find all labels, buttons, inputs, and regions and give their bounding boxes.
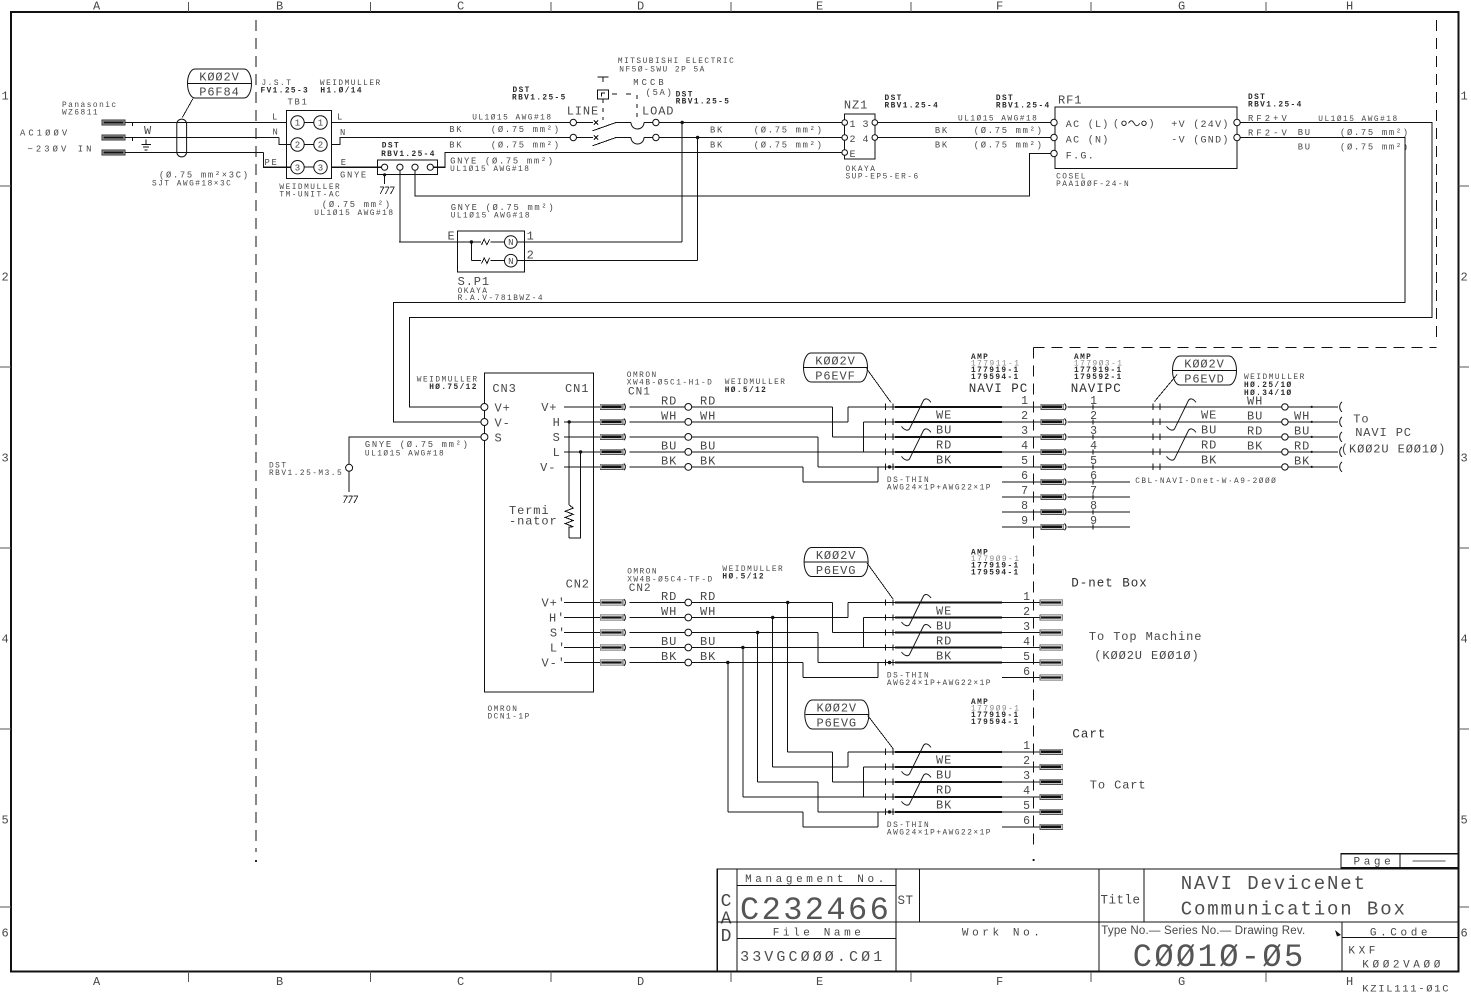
svg-text:KØØ2VAØØ: KØØ2VAØØ (1362, 960, 1444, 972)
svg-text:RD: RD (1294, 440, 1310, 454)
svg-text:6: 6 (1023, 666, 1030, 679)
svg-text:WE: WE (936, 409, 952, 423)
svg-text:+V (24V): +V (24V) (1171, 119, 1229, 131)
svg-text:8: 8 (1090, 500, 1097, 513)
svg-text:F: F (996, 0, 1004, 14)
svg-text:BK: BK (1294, 455, 1310, 469)
svg-text:N: N (340, 128, 347, 138)
svg-text:G: G (1178, 975, 1186, 989)
svg-text:MITSUBISHI ELECTRIC: MITSUBISHI ELECTRIC (618, 58, 735, 66)
svg-text:1: 1 (1023, 591, 1030, 604)
svg-text:GNYE (Ø.75 mm²): GNYE (Ø.75 mm²) (450, 157, 555, 167)
svg-text:L: L (337, 113, 344, 123)
svg-text:BK: BK (449, 140, 463, 150)
svg-text:H: H (553, 416, 561, 430)
svg-text:BK: BK (661, 455, 677, 469)
svg-text:UL1Ø15 AWG#18: UL1Ø15 AWG#18 (314, 209, 394, 218)
svg-text:BK: BK (936, 799, 952, 813)
svg-text:(Ø.75 mm²): (Ø.75 mm²) (322, 200, 392, 210)
svg-text:File Name: File Name (773, 928, 865, 940)
svg-text:1: 1 (850, 120, 856, 131)
svg-text:P6EVG: P6EVG (817, 716, 858, 730)
svg-text:2: 2 (850, 135, 856, 146)
svg-text:2: 2 (318, 141, 323, 151)
svg-text:4: 4 (1090, 440, 1097, 453)
svg-text:KØØ2V: KØØ2V (1184, 357, 1225, 371)
svg-text:GNYE (Ø.75 mm²): GNYE (Ø.75 mm²) (451, 203, 556, 213)
svg-text:BU: BU (936, 424, 952, 438)
svg-text:RD: RD (661, 590, 677, 604)
svg-text:Type No.— Series No.— Drawing: Type No.— Series No.— Drawing Rev. (1101, 925, 1305, 937)
svg-text:P6EVF: P6EVF (815, 369, 856, 383)
svg-text:2: 2 (1460, 271, 1468, 285)
svg-text:BU: BU (661, 440, 677, 454)
svg-text:4: 4 (863, 135, 869, 146)
svg-text:KØØ2V: KØØ2V (816, 549, 857, 563)
svg-text:A: A (93, 0, 101, 14)
svg-text:To Cart: To Cart (1090, 779, 1147, 793)
svg-text:RF1: RF1 (1058, 94, 1082, 108)
svg-text:S': S' (550, 627, 566, 641)
svg-text:(KØØ2U EØØ1Ø): (KØØ2U EØØ1Ø) (1341, 442, 1446, 456)
svg-text:): ) (1149, 119, 1156, 131)
svg-text:BK: BK (935, 126, 949, 136)
svg-text:2: 2 (295, 141, 300, 151)
svg-text:AC (L): AC (L) (1066, 119, 1110, 131)
svg-text:NAVI DeviceNet: NAVI DeviceNet (1181, 873, 1367, 895)
svg-text:TM-UNIT-AC: TM-UNIT-AC (279, 192, 341, 200)
svg-text:9: 9 (1090, 515, 1097, 528)
svg-text:W: W (144, 124, 152, 138)
svg-text:-V (GND): -V (GND) (1171, 135, 1229, 147)
svg-text:BK: BK (935, 141, 949, 151)
svg-text:(Ø.75 mm²): (Ø.75 mm²) (491, 140, 561, 150)
svg-text:3: 3 (863, 120, 869, 131)
svg-text:F: F (996, 975, 1004, 989)
svg-text:To: To (1353, 413, 1369, 427)
svg-text:NZ1: NZ1 (844, 99, 868, 113)
svg-text:BU: BU (936, 769, 952, 783)
svg-text:3: 3 (1090, 425, 1097, 438)
svg-text:L': L' (550, 642, 566, 656)
svg-text:D-net Box: D-net Box (1071, 577, 1148, 591)
svg-text:BU: BU (1298, 128, 1312, 138)
svg-text:1: 1 (1021, 395, 1028, 408)
svg-text:179594-1: 179594-1 (971, 374, 1020, 382)
svg-text:HØ.5/12: HØ.5/12 (722, 573, 765, 582)
svg-text:179592-1: 179592-1 (1074, 374, 1123, 382)
svg-text:BU: BU (1294, 425, 1310, 439)
svg-text:5: 5 (1090, 455, 1097, 468)
svg-text:(5A): (5A) (646, 88, 674, 98)
svg-text:UL1Ø15 AWG#18: UL1Ø15 AWG#18 (451, 212, 531, 221)
svg-text:KØØ2V: KØØ2V (817, 701, 858, 715)
svg-text:HØ.75/12: HØ.75/12 (429, 383, 478, 392)
svg-text:HØ.34/1Ø: HØ.34/1Ø (1244, 389, 1293, 398)
svg-text:CN3: CN3 (492, 382, 516, 396)
svg-text:LINE: LINE (567, 105, 599, 119)
svg-text:SUP-EP5-ER-6: SUP-EP5-ER-6 (846, 174, 920, 182)
svg-text:WE: WE (936, 604, 952, 618)
svg-text:CN2: CN2 (629, 583, 652, 595)
svg-text:6: 6 (1090, 470, 1097, 483)
svg-text:WEIDMULLER: WEIDMULLER (725, 379, 787, 387)
svg-text:ST: ST (898, 894, 914, 908)
svg-text:2: 2 (1021, 410, 1028, 423)
svg-text:G: G (1178, 0, 1186, 14)
svg-text:CN1: CN1 (565, 382, 589, 396)
svg-text:D: D (721, 927, 732, 947)
svg-text:(Ø.75 mm²): (Ø.75 mm²) (754, 141, 824, 151)
svg-text:SJT AWG#18×3C: SJT AWG#18×3C (152, 181, 232, 189)
svg-text:3: 3 (1023, 770, 1030, 783)
svg-text:P6EVG: P6EVG (816, 564, 857, 578)
svg-text:MCCB: MCCB (633, 78, 667, 88)
svg-text:1: 1 (527, 230, 535, 244)
svg-text:1: 1 (1460, 90, 1468, 104)
svg-text:1: 1 (1090, 395, 1097, 408)
svg-text:S.P1: S.P1 (458, 275, 490, 289)
svg-text:V-: V- (540, 461, 556, 475)
svg-text:RD: RD (1201, 439, 1217, 453)
svg-text:NAVI PC: NAVI PC (969, 382, 1029, 396)
svg-text:5: 5 (1021, 455, 1028, 468)
svg-text:OMRON: OMRON (627, 569, 658, 577)
svg-text:UL1Ø15 AWG#18: UL1Ø15 AWG#18 (365, 449, 445, 458)
svg-text:1: 1 (318, 119, 323, 129)
svg-text:RBV1.25-4: RBV1.25-4 (381, 151, 436, 159)
svg-text:3: 3 (1, 452, 9, 466)
svg-text:D: D (637, 0, 645, 14)
svg-text:BK: BK (710, 126, 724, 136)
svg-text:4: 4 (1023, 636, 1030, 649)
svg-text:(Ø.75 mm²): (Ø.75 mm²) (974, 141, 1044, 151)
svg-text:BU: BU (661, 635, 677, 649)
svg-text:BK: BK (1247, 440, 1263, 454)
svg-text:WZ6811: WZ6811 (62, 110, 99, 118)
svg-text:B: B (276, 0, 284, 14)
svg-text:P6F84: P6F84 (199, 85, 240, 99)
svg-text:N: N (508, 238, 513, 248)
svg-text:KØØ2V: KØØ2V (815, 354, 856, 368)
svg-text:H1.Ø/14: H1.Ø/14 (320, 87, 363, 96)
svg-text:FV1.25-3: FV1.25-3 (261, 88, 310, 96)
svg-text:(: ( (1113, 119, 1120, 131)
svg-text:LOAD: LOAD (642, 105, 674, 119)
svg-text:CBL-NAVI-Dnet-W·A9-2ØØØ: CBL-NAVI-Dnet-W·A9-2ØØØ (1135, 477, 1277, 486)
svg-text:AWG24×1P+AWG22×1P: AWG24×1P+AWG22×1P (887, 829, 992, 837)
svg-text:9: 9 (1021, 515, 1028, 528)
svg-text:6: 6 (1023, 815, 1030, 828)
svg-text:F.G.: F.G. (1066, 152, 1095, 163)
svg-text:E: E (816, 0, 824, 14)
svg-text:Work No.: Work No. (962, 928, 1044, 940)
svg-text:D: D (637, 975, 645, 989)
svg-text:NAVI PC: NAVI PC (1355, 426, 1412, 440)
svg-text:2: 2 (1090, 410, 1097, 423)
svg-text:UL1Ø15 AWG#18: UL1Ø15 AWG#18 (472, 114, 552, 123)
svg-text:AC (N): AC (N) (1066, 135, 1110, 147)
svg-text:2: 2 (1, 271, 9, 285)
svg-text:6: 6 (1021, 470, 1028, 483)
svg-text:RD: RD (936, 439, 952, 453)
svg-text:WEIDMULLER: WEIDMULLER (1244, 374, 1306, 382)
svg-text:33VGCØØØ.CØ1: 33VGCØØØ.CØ1 (740, 949, 885, 966)
svg-text:Management No.: Management No. (745, 874, 888, 886)
svg-text:RBV1.25-4: RBV1.25-4 (1248, 102, 1303, 110)
svg-text:C: C (457, 975, 465, 989)
svg-text:PAA1ØØF-24-N: PAA1ØØF-24-N (1056, 180, 1130, 189)
svg-text:KXF: KXF (1348, 946, 1379, 958)
svg-text:RBV1.25-4: RBV1.25-4 (996, 103, 1051, 111)
svg-text:2: 2 (1023, 606, 1030, 619)
svg-text:(Ø.75 mm²): (Ø.75 mm²) (491, 125, 561, 135)
svg-text:3: 3 (1460, 452, 1468, 466)
svg-text:V+: V+ (495, 402, 511, 416)
svg-text:4: 4 (1021, 440, 1028, 453)
svg-text:BU: BU (1298, 143, 1312, 153)
svg-text:3: 3 (1021, 425, 1028, 438)
svg-text:N: N (273, 128, 280, 138)
svg-text:C: C (457, 0, 465, 14)
svg-text:BU: BU (1247, 410, 1263, 424)
svg-text:RBV1.25-M3.5: RBV1.25-M3.5 (269, 470, 343, 478)
svg-text:E: E (816, 975, 824, 989)
svg-text:BK: BK (936, 649, 952, 663)
svg-text:RF2+V: RF2+V (1248, 114, 1290, 124)
svg-text:NAVIPC: NAVIPC (1071, 382, 1122, 396)
svg-text:Cart: Cart (1072, 728, 1106, 742)
svg-text:RD: RD (661, 395, 677, 409)
svg-text:RBV1.25-5: RBV1.25-5 (512, 95, 567, 103)
svg-text:(Ø.75 mm²): (Ø.75 mm²) (1340, 143, 1410, 153)
svg-text:BK: BK (661, 650, 677, 664)
svg-text:HØ.25/1Ø: HØ.25/1Ø (1244, 381, 1293, 390)
svg-text:DCN1-1P: DCN1-1P (488, 714, 531, 722)
svg-text:S: S (553, 431, 561, 445)
svg-text:8: 8 (1021, 500, 1028, 513)
svg-text:HØ.5/12: HØ.5/12 (725, 386, 768, 395)
svg-text:NF5Ø-SWU 2P 5A: NF5Ø-SWU 2P 5A (619, 66, 706, 75)
svg-text:(Ø.75 mm²): (Ø.75 mm²) (1340, 128, 1410, 138)
svg-text:2: 2 (1023, 755, 1030, 768)
svg-text:V-: V- (495, 417, 511, 431)
svg-text:1: 1 (1023, 740, 1030, 753)
svg-text:B: B (276, 975, 284, 989)
svg-text:5: 5 (1023, 651, 1030, 664)
svg-text:AWG24×1P+AWG22×1P: AWG24×1P+AWG22×1P (887, 484, 992, 492)
svg-text:V+': V+' (542, 597, 566, 611)
svg-text:3: 3 (318, 163, 323, 173)
svg-text:BU: BU (936, 619, 952, 633)
svg-text:V+: V+ (541, 401, 557, 415)
svg-text:TB1: TB1 (288, 98, 309, 108)
svg-text:DST: DST (382, 142, 400, 150)
svg-text:H: H (1346, 0, 1354, 14)
svg-text:V-': V-' (542, 657, 566, 671)
svg-text:Communication Box: Communication Box (1181, 899, 1407, 921)
svg-text:N: N (508, 257, 513, 267)
svg-text:To Top Machine: To Top Machine (1089, 630, 1202, 644)
svg-text:H: H (1346, 975, 1354, 989)
svg-text:5: 5 (1460, 814, 1468, 828)
svg-text:PE: PE (265, 158, 279, 168)
svg-text:WH: WH (661, 410, 677, 424)
svg-text:(Ø.75 mm²): (Ø.75 mm²) (754, 126, 824, 136)
svg-text:A: A (93, 975, 101, 989)
svg-text:179594-1: 179594-1 (971, 569, 1020, 577)
svg-text:Title: Title (1101, 894, 1141, 908)
svg-text:BK: BK (936, 454, 952, 468)
svg-text:5: 5 (1023, 800, 1030, 813)
svg-text:KØØ2V: KØØ2V (199, 70, 240, 84)
svg-text:UL1Ø15 AWG#18: UL1Ø15 AWG#18 (958, 114, 1038, 123)
svg-text:7: 7 (1021, 485, 1028, 498)
svg-text:UL1Ø15 AWG#18: UL1Ø15 AWG#18 (450, 165, 530, 174)
svg-text:1: 1 (1, 90, 9, 104)
svg-text:BK: BK (710, 141, 724, 151)
svg-text:~23ØV IN: ~23ØV IN (28, 145, 95, 155)
svg-text:Page: Page (1354, 857, 1395, 869)
svg-text:WE: WE (936, 754, 952, 768)
svg-text:S: S (495, 432, 503, 446)
svg-text:(Ø.75 mm²×3C): (Ø.75 mm²×3C) (159, 171, 250, 181)
svg-text:RD: RD (936, 634, 952, 648)
svg-text:AC1ØØV: AC1ØØV (20, 129, 70, 139)
svg-text:6: 6 (1460, 927, 1468, 941)
svg-text:CØØ1Ø-Ø5: CØØ1Ø-Ø5 (1133, 939, 1306, 976)
svg-text:RBV1.25-5: RBV1.25-5 (676, 99, 731, 107)
svg-text:BK: BK (1201, 454, 1217, 468)
svg-text:RBV1.25-4: RBV1.25-4 (885, 103, 940, 111)
svg-text:E: E (341, 158, 348, 168)
svg-text:6: 6 (1, 927, 9, 941)
svg-text:5: 5 (1, 814, 9, 828)
svg-text:179594-1: 179594-1 (971, 719, 1020, 727)
svg-text:4: 4 (1023, 785, 1030, 798)
svg-text:RF2-V: RF2-V (1248, 129, 1290, 139)
svg-text:WE: WE (1201, 409, 1217, 423)
svg-text:4: 4 (1, 633, 9, 647)
svg-text:7: 7 (1090, 485, 1097, 498)
svg-text:H': H' (549, 612, 565, 626)
svg-text:-nator: -nator (509, 515, 558, 529)
svg-text:3: 3 (295, 163, 300, 173)
svg-text:KZIL111-Ø1C: KZIL111-Ø1C (1362, 984, 1450, 992)
svg-text:L: L (272, 113, 279, 123)
svg-text:3: 3 (1023, 621, 1030, 634)
svg-text:GNYE (Ø.75 mm²): GNYE (Ø.75 mm²) (365, 440, 470, 450)
svg-text:1: 1 (295, 119, 300, 129)
svg-text:GNYE: GNYE (340, 171, 368, 181)
svg-text:(Ø.75 mm²): (Ø.75 mm²) (974, 126, 1044, 136)
svg-text:RD: RD (1247, 425, 1263, 439)
svg-text:RD: RD (936, 784, 952, 798)
svg-text:WH: WH (661, 605, 677, 619)
svg-text:E: E (850, 150, 856, 161)
svg-text:WH: WH (1294, 410, 1310, 424)
svg-text:4: 4 (1460, 633, 1468, 647)
svg-text:L: L (553, 446, 561, 460)
svg-text:UL1Ø15 AWG#18: UL1Ø15 AWG#18 (1318, 115, 1398, 124)
svg-text:CN2: CN2 (566, 578, 590, 592)
svg-text:BK: BK (449, 125, 463, 135)
svg-text:C232466: C232466 (740, 892, 891, 929)
svg-text:AWG24×1P+AWG22×1P: AWG24×1P+AWG22×1P (887, 680, 992, 688)
svg-text:BU: BU (1201, 424, 1217, 438)
svg-text:(KØØ2U EØØ1Ø): (KØØ2U EØØ1Ø) (1094, 649, 1199, 663)
svg-text:CN1: CN1 (628, 387, 651, 399)
svg-text:P6EVD: P6EVD (1184, 372, 1225, 386)
